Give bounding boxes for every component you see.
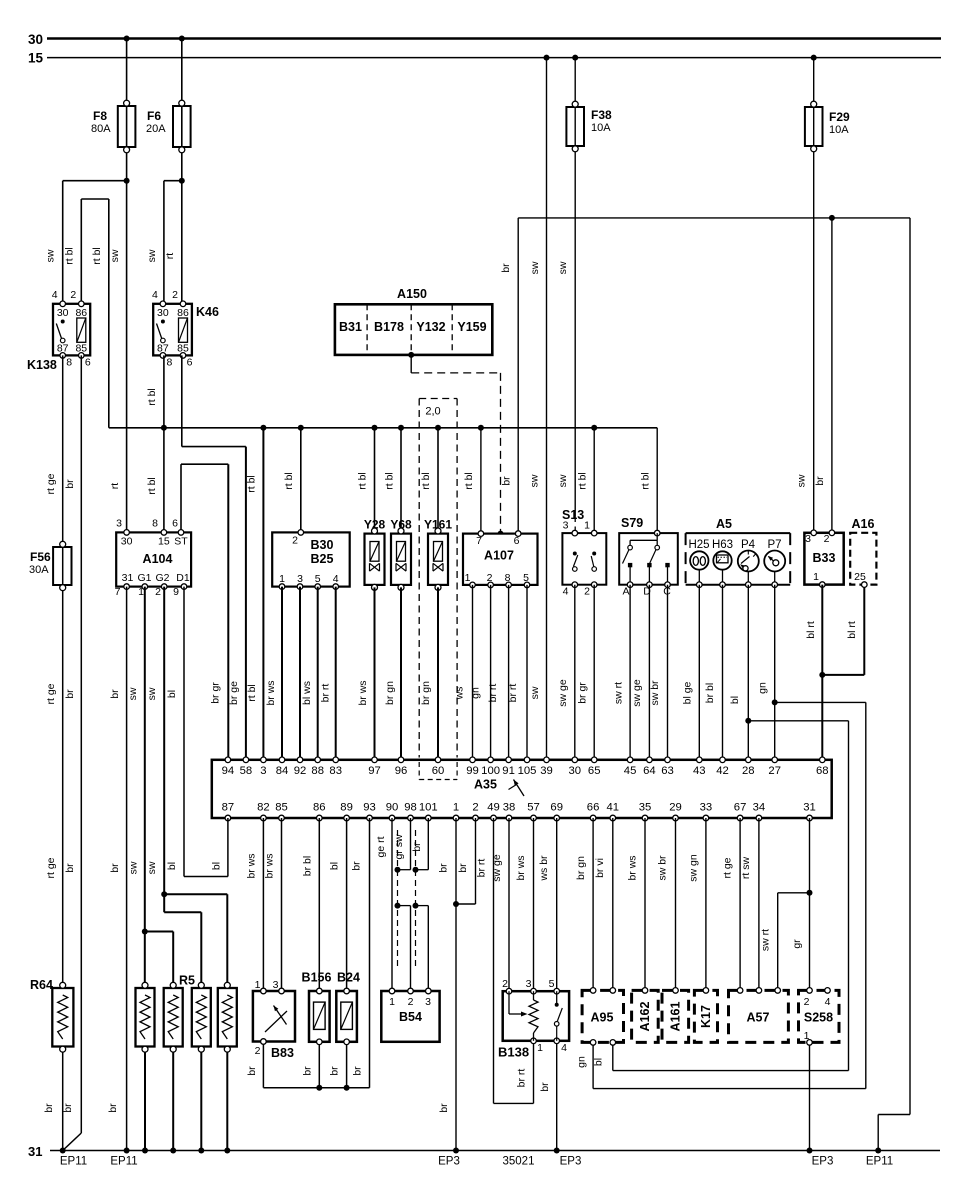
svg-text:ws: ws (454, 687, 466, 701)
svg-text:br: br (501, 476, 513, 486)
svg-text:94: 94 (222, 765, 235, 777)
svg-text:rt: rt (164, 253, 176, 259)
svg-text:35: 35 (639, 802, 652, 814)
svg-text:sw: sw (127, 687, 139, 700)
svg-text:15: 15 (158, 536, 170, 548)
svg-text:91: 91 (502, 765, 515, 777)
svg-text:Y68: Y68 (390, 518, 412, 532)
svg-text:31: 31 (122, 572, 134, 584)
svg-text:A35: A35 (474, 778, 497, 792)
svg-text:3: 3 (116, 518, 122, 530)
svg-text:84: 84 (276, 765, 289, 777)
svg-text:7: 7 (476, 535, 482, 547)
svg-text:gn: gn (576, 1056, 588, 1068)
svg-text:br rt: br rt (507, 684, 519, 703)
svg-text:G2: G2 (155, 572, 169, 584)
svg-text:gr: gr (791, 939, 803, 949)
svg-text:B156: B156 (302, 971, 332, 985)
svg-text:30: 30 (28, 32, 43, 47)
svg-text:3: 3 (273, 979, 279, 991)
svg-text:K17: K17 (699, 1005, 713, 1028)
svg-text:sw: sw (109, 249, 121, 262)
svg-text:Y28: Y28 (364, 518, 386, 532)
svg-text:2: 2 (502, 978, 508, 990)
svg-text:br: br (814, 476, 826, 486)
svg-text:sw: sw (529, 474, 541, 487)
svg-text:br ws: br ws (264, 853, 276, 878)
svg-text:rt ge: rt ge (45, 473, 57, 494)
svg-text:63: 63 (661, 765, 674, 777)
svg-text:B33: B33 (813, 551, 836, 565)
svg-text:88: 88 (311, 765, 324, 777)
svg-text:bl rt: bl rt (846, 621, 858, 639)
svg-text:6: 6 (187, 357, 193, 369)
svg-text:2: 2 (155, 586, 161, 598)
svg-text:br: br (246, 1066, 258, 1076)
svg-text:bl: bl (729, 696, 741, 704)
svg-text:20A: 20A (146, 123, 166, 135)
svg-text:A5: A5 (716, 517, 732, 531)
svg-text:69: 69 (550, 802, 563, 814)
svg-text:bl: bl (211, 862, 223, 870)
svg-text:2: 2 (584, 586, 590, 598)
svg-text:99: 99 (466, 765, 479, 777)
svg-text:gn: gn (757, 682, 769, 694)
svg-text:rt ge: rt ge (722, 857, 734, 878)
svg-text:1: 1 (453, 802, 459, 814)
svg-text:br bl: br bl (704, 683, 716, 703)
svg-text:1: 1 (465, 572, 471, 584)
svg-text:A95: A95 (591, 1011, 614, 1025)
svg-text:R5: R5 (179, 974, 195, 988)
svg-text:8: 8 (66, 357, 72, 369)
svg-text:sw: sw (557, 474, 569, 487)
svg-text:br gn: br gn (384, 681, 396, 705)
svg-text:83: 83 (329, 765, 342, 777)
svg-text:br: br (539, 1082, 551, 1092)
svg-text:rt bl: rt bl (64, 247, 76, 265)
svg-text:rt bl: rt bl (283, 472, 295, 490)
svg-text:rt: rt (109, 483, 121, 489)
svg-text:2: 2 (292, 535, 298, 547)
svg-text:B31: B31 (339, 320, 362, 334)
svg-text:A: A (622, 586, 629, 598)
svg-text:br: br (43, 1103, 55, 1113)
svg-text:rt ge: rt ge (45, 857, 57, 878)
svg-text:39: 39 (540, 765, 553, 777)
svg-text:EP3: EP3 (560, 1156, 582, 1168)
svg-text:3: 3 (563, 520, 569, 532)
svg-text:4: 4 (333, 573, 339, 585)
svg-text:97: 97 (368, 765, 381, 777)
svg-text:B138: B138 (498, 1045, 529, 1060)
svg-text:br rt: br rt (320, 684, 332, 703)
svg-text:br: br (351, 861, 363, 871)
svg-text:sw: sw (146, 687, 158, 700)
svg-text:bl: bl (329, 862, 341, 870)
svg-text:38: 38 (503, 802, 516, 814)
svg-text:8: 8 (152, 518, 158, 530)
svg-text:85: 85 (275, 802, 288, 814)
svg-text:br gn: br gn (420, 681, 432, 705)
svg-text:K138: K138 (27, 358, 57, 372)
svg-text:D1: D1 (176, 572, 190, 584)
svg-text:br: br (107, 1103, 119, 1113)
svg-text:2: 2 (824, 533, 830, 545)
svg-text:C: C (663, 586, 671, 598)
svg-text:br ws: br ws (265, 680, 277, 705)
svg-text:4: 4 (563, 586, 569, 598)
svg-text:Y132: Y132 (416, 320, 445, 334)
svg-text:85: 85 (75, 343, 87, 355)
svg-text:br vi: br vi (594, 858, 606, 878)
svg-text:92: 92 (294, 765, 307, 777)
svg-text:30: 30 (569, 765, 582, 777)
svg-text:B25: B25 (311, 552, 334, 566)
svg-text:br: br (62, 1103, 74, 1113)
svg-text:1: 1 (255, 979, 261, 991)
svg-text:ge rt: ge rt (375, 836, 387, 857)
svg-text:bl rt: bl rt (805, 621, 817, 639)
svg-text:10A: 10A (591, 122, 611, 134)
svg-text:br gn: br gn (575, 856, 587, 880)
svg-text:3: 3 (425, 996, 431, 1008)
svg-text:B30: B30 (311, 538, 334, 552)
svg-text:sw: sw (796, 474, 808, 487)
svg-text:EP3: EP3 (812, 1156, 834, 1168)
svg-text:br: br (64, 479, 76, 489)
svg-text:ST: ST (174, 536, 188, 548)
svg-text:87: 87 (157, 343, 169, 355)
svg-text:rt bl: rt bl (146, 477, 158, 495)
svg-text:R64: R64 (30, 978, 53, 992)
svg-text:rt bl: rt bl (463, 472, 475, 490)
svg-text:F56: F56 (30, 550, 51, 564)
svg-text:27: 27 (768, 765, 781, 777)
svg-text:33: 33 (700, 802, 713, 814)
svg-text:7: 7 (115, 586, 121, 598)
svg-text:br ws: br ws (246, 853, 258, 878)
svg-text:bl ws: bl ws (301, 681, 313, 705)
svg-text:67: 67 (734, 802, 747, 814)
svg-text:P4: P4 (741, 539, 756, 551)
svg-text:sw: sw (146, 861, 158, 874)
svg-text:D: D (643, 586, 651, 598)
svg-text:bl: bl (166, 690, 178, 698)
svg-text:65: 65 (588, 765, 601, 777)
svg-text:2: 2 (408, 996, 414, 1008)
svg-text:5: 5 (549, 978, 555, 990)
svg-text:br gr: br gr (577, 682, 589, 704)
svg-text:80A: 80A (91, 123, 111, 135)
svg-text:89: 89 (340, 802, 353, 814)
svg-text:5: 5 (523, 572, 529, 584)
svg-text:87: 87 (222, 802, 235, 814)
svg-text:1: 1 (279, 573, 285, 585)
svg-text:br: br (457, 863, 469, 873)
svg-text:4: 4 (152, 289, 158, 301)
svg-text:rt bl: rt bl (577, 472, 589, 490)
svg-text:br: br (302, 1066, 314, 1076)
svg-text:29: 29 (669, 802, 682, 814)
svg-text:8: 8 (166, 357, 172, 369)
svg-text:Y161: Y161 (424, 518, 452, 532)
svg-text:sw ge: sw ge (491, 854, 503, 882)
svg-text:EP11: EP11 (866, 1156, 893, 1168)
svg-text:5: 5 (315, 573, 321, 585)
svg-text:rt bl: rt bl (246, 684, 258, 702)
svg-text:F38: F38 (591, 108, 612, 122)
svg-text:101: 101 (419, 802, 438, 814)
svg-text:rt bl: rt bl (91, 247, 103, 265)
svg-text:58: 58 (240, 765, 253, 777)
svg-text:gn: gn (470, 687, 482, 699)
svg-text:F8: F8 (93, 109, 107, 123)
svg-text:57: 57 (527, 802, 540, 814)
svg-text:43: 43 (693, 765, 706, 777)
svg-text:br ge: br ge (228, 681, 240, 705)
svg-text:A107: A107 (484, 549, 514, 563)
svg-text:sw gn: sw gn (688, 854, 700, 882)
svg-text:86: 86 (75, 307, 87, 319)
svg-text:4: 4 (825, 996, 831, 1008)
svg-text:br: br (438, 863, 450, 873)
svg-text:H25: H25 (688, 539, 709, 551)
svg-text:A104: A104 (143, 552, 173, 566)
svg-text:EP11: EP11 (60, 1156, 87, 1168)
svg-text:1: 1 (537, 1042, 543, 1054)
svg-text:6: 6 (514, 535, 520, 547)
svg-text:60: 60 (432, 765, 445, 777)
svg-text:sw: sw (128, 861, 140, 874)
svg-text:30: 30 (157, 307, 169, 319)
svg-text:6: 6 (85, 357, 91, 369)
svg-text:64: 64 (643, 765, 656, 777)
svg-text:2,0: 2,0 (425, 406, 440, 418)
svg-text:42: 42 (716, 765, 729, 777)
svg-text:28: 28 (742, 765, 755, 777)
svg-text:B24: B24 (337, 971, 360, 985)
svg-text:82: 82 (257, 802, 270, 814)
svg-text:rt bl: rt bl (640, 472, 652, 490)
svg-text:br: br (438, 1103, 450, 1113)
svg-text:F6: F6 (147, 109, 161, 123)
svg-text:1: 1 (813, 571, 819, 583)
svg-text:ws br: ws br (538, 855, 550, 882)
svg-text:1: 1 (138, 586, 144, 598)
svg-text:br rt: br rt (487, 684, 499, 703)
svg-text:sw: sw (45, 249, 57, 262)
svg-text:34: 34 (753, 802, 766, 814)
svg-text:A150: A150 (397, 287, 427, 301)
svg-text:6: 6 (172, 518, 178, 530)
svg-text:sw: sw (146, 249, 158, 262)
svg-text:br: br (500, 263, 512, 273)
svg-text:3: 3 (260, 765, 266, 777)
svg-text:br: br (64, 689, 76, 699)
svg-text:P7: P7 (767, 539, 781, 551)
svg-text:sw br: sw br (649, 680, 661, 706)
svg-text:41: 41 (607, 802, 620, 814)
svg-text:10A: 10A (829, 124, 849, 136)
svg-text:A162: A162 (638, 1002, 652, 1032)
svg-text:rt bl: rt bl (384, 472, 396, 490)
svg-text:br: br (64, 863, 76, 873)
svg-text:gr sw: gr sw (393, 834, 405, 860)
svg-text:8: 8 (505, 572, 511, 584)
svg-text:2: 2 (172, 289, 178, 301)
svg-text:2: 2 (804, 996, 810, 1008)
svg-text:G1: G1 (137, 572, 151, 584)
svg-text:87: 87 (57, 343, 69, 355)
svg-text:66: 66 (587, 802, 600, 814)
svg-text:S258: S258 (804, 1011, 833, 1025)
svg-text:4: 4 (561, 1042, 567, 1054)
svg-text:96: 96 (395, 765, 408, 777)
svg-text:1: 1 (389, 996, 395, 1008)
svg-text:rt bl: rt bl (146, 388, 158, 406)
svg-text:sw rt: sw rt (613, 682, 625, 704)
svg-text:1: 1 (584, 520, 590, 532)
svg-text:3: 3 (297, 573, 303, 585)
svg-text:3: 3 (805, 533, 811, 545)
svg-text:2: 2 (255, 1045, 261, 1057)
svg-text:30: 30 (57, 307, 69, 319)
svg-text:90: 90 (386, 802, 399, 814)
svg-text:4: 4 (52, 289, 58, 301)
svg-text:B178: B178 (374, 320, 404, 334)
svg-text:Y159: Y159 (457, 320, 486, 334)
svg-text:rt bl: rt bl (246, 475, 258, 493)
svg-text:EP3: EP3 (438, 1156, 460, 1168)
svg-text:3: 3 (526, 978, 532, 990)
svg-text:31: 31 (28, 1144, 42, 1159)
svg-text:S79: S79 (621, 516, 643, 530)
svg-text:br: br (329, 1066, 341, 1076)
svg-text:EP11: EP11 (110, 1156, 137, 1168)
svg-text:bl ge: bl ge (682, 681, 694, 704)
svg-text:br: br (352, 1066, 364, 1076)
svg-text:sw br: sw br (657, 855, 669, 881)
svg-text:sw: sw (529, 261, 541, 274)
svg-text:br gr: br gr (210, 682, 222, 704)
svg-text:31: 31 (803, 802, 816, 814)
svg-text:bl: bl (593, 1058, 605, 1066)
svg-text:98: 98 (404, 802, 417, 814)
svg-text:bl: bl (166, 862, 178, 870)
svg-text:K46: K46 (196, 305, 219, 319)
svg-text:sw ge: sw ge (557, 679, 569, 707)
svg-text:86: 86 (177, 307, 189, 319)
svg-text:sw ge: sw ge (631, 679, 643, 707)
svg-text:br: br (109, 863, 121, 873)
svg-text:rt ge: rt ge (45, 683, 57, 704)
svg-text:100: 100 (481, 765, 500, 777)
svg-text:br: br (109, 689, 121, 699)
svg-text:105: 105 (518, 765, 537, 777)
svg-text:86: 86 (313, 802, 326, 814)
svg-text:1: 1 (804, 1030, 810, 1042)
svg-text:A16: A16 (852, 517, 875, 531)
svg-text:9: 9 (173, 586, 179, 598)
svg-text:30: 30 (121, 536, 133, 548)
svg-text:br ws: br ws (515, 855, 527, 880)
svg-text:93: 93 (363, 802, 376, 814)
svg-text:br ws: br ws (357, 680, 369, 705)
svg-text:2: 2 (487, 572, 493, 584)
svg-text:br: br (411, 842, 423, 852)
svg-text:rt sw: rt sw (740, 857, 752, 880)
svg-text:H63: H63 (712, 539, 733, 551)
svg-text:br rt: br rt (516, 1069, 528, 1088)
svg-text:rt bl: rt bl (420, 472, 432, 490)
svg-text:68: 68 (816, 765, 829, 777)
svg-text:br ws: br ws (627, 855, 639, 880)
svg-text:F29: F29 (829, 110, 850, 124)
svg-text:35021: 35021 (503, 1156, 535, 1168)
svg-text:sw: sw (557, 261, 569, 274)
svg-text:br rt: br rt (476, 859, 488, 878)
svg-text:85: 85 (177, 343, 189, 355)
svg-text:B54: B54 (399, 1010, 422, 1024)
svg-text:rt bl: rt bl (357, 472, 369, 490)
svg-text:2: 2 (70, 289, 76, 301)
svg-text:30A: 30A (29, 564, 49, 576)
svg-text:br bl: br bl (302, 856, 314, 876)
svg-text:A161: A161 (669, 1002, 683, 1032)
svg-text:A57: A57 (747, 1011, 770, 1025)
svg-text:2: 2 (472, 802, 478, 814)
svg-text:sw: sw (529, 686, 541, 699)
svg-text:sw rt: sw rt (760, 929, 772, 951)
svg-text:B83: B83 (271, 1046, 294, 1060)
svg-text:45: 45 (624, 765, 637, 777)
svg-text:15: 15 (28, 51, 44, 66)
svg-text:49: 49 (487, 802, 500, 814)
